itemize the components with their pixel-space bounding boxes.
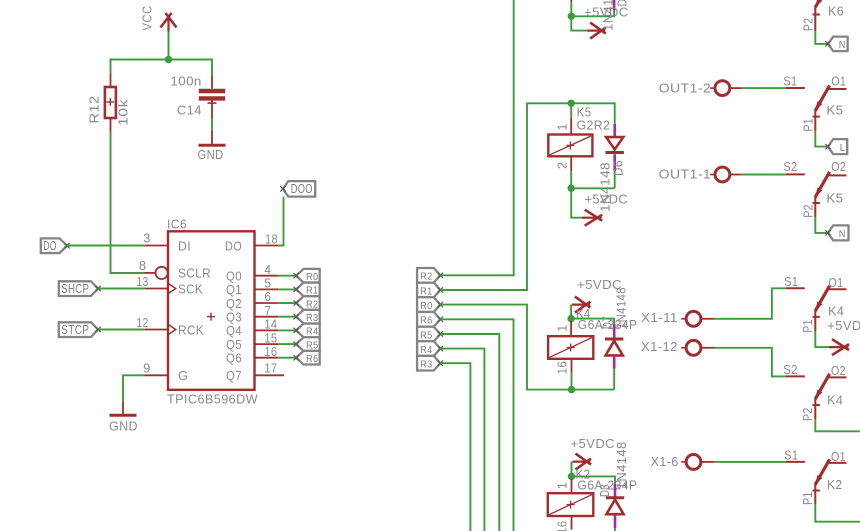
wire R12 to SCLR	[111, 132, 145, 274]
pin 12 RCK	[144, 329, 168, 331]
ground GND (IC6)	[122, 402, 124, 416]
svg-text:S1: S1	[783, 74, 797, 89]
svg-text:9: 9	[143, 360, 151, 375]
svg-text:17: 17	[264, 361, 277, 376]
wire junction to R12 and C14	[111, 60, 213, 76]
svg-text:13: 13	[137, 274, 149, 289]
pin 16 Q6	[255, 357, 279, 359]
wire K2 top to diode D8	[572, 476, 616, 483]
node junction K5 top	[568, 100, 575, 107]
svg-text:N: N	[839, 228, 846, 240]
supply +5VDC (K4 P1)	[815, 331, 829, 347]
wire SHCP to SCK	[98, 288, 144, 290]
wire P1 to L	[815, 131, 828, 147]
wire +5VDC to K4 junction	[570, 305, 572, 319]
svg-text:R3: R3	[306, 312, 319, 324]
node junction K2 top	[568, 473, 575, 480]
relay contact K5 S1/O1/P1	[786, 87, 805, 89]
supply +5VDC (top)	[571, 16, 587, 30]
svg-text:RCK: RCK	[178, 322, 204, 337]
node tag DOO	[283, 181, 315, 197]
relay K5 coil	[570, 103, 572, 118]
svg-text:8: 8	[139, 258, 147, 273]
svg-text:K5: K5	[826, 103, 843, 118]
svg-text:K4: K4	[828, 304, 844, 319]
wire R2 to top edge	[440, 0, 513, 275]
node tags R0-R6 column right of IC6	[296, 269, 320, 283]
pin 17 Q7	[255, 374, 285, 376]
svg-text:1: 1	[555, 123, 570, 131]
pin 7 Q3	[255, 316, 279, 318]
svg-text:D7: D7	[600, 316, 615, 329]
svg-text:16: 16	[555, 361, 570, 375]
svg-text:P2: P2	[801, 18, 816, 32]
svg-text:S2: S2	[783, 362, 798, 377]
relay contact K6 P2 (cut off)	[815, 0, 824, 8]
svg-text:R5: R5	[420, 329, 433, 341]
svg-text:D8: D8	[597, 484, 612, 497]
wire K4 top to diode D7	[571, 319, 614, 324]
pad OUT1-2	[715, 81, 730, 96]
pad OUT1-1	[715, 167, 730, 182]
wire X1-12 to K4 S2	[701, 347, 715, 349]
svg-text:TPIC6B596DW: TPIC6B596DW	[167, 392, 258, 407]
wire K5 top to diode D6	[571, 103, 615, 124]
svg-text:3: 3	[143, 231, 151, 246]
svg-text:S1: S1	[784, 448, 798, 463]
pin 15 Q5	[255, 343, 279, 345]
ground GND (C14)	[211, 131, 213, 145]
node tag N (K5)	[828, 225, 849, 240]
pin 6 Q2	[255, 302, 279, 304]
svg-text:D5: D5	[614, 0, 629, 7]
svg-text:DO: DO	[225, 238, 242, 253]
svg-text:16: 16	[264, 344, 277, 359]
supply +5VDC (K4)	[572, 304, 590, 306]
relay K2 coil	[571, 479, 573, 493]
svg-text:GND: GND	[198, 147, 224, 162]
svg-text:DO: DO	[43, 239, 57, 253]
svg-text:1N4148: 1N4148	[613, 287, 628, 329]
svg-text:X1-6: X1-6	[651, 454, 679, 469]
node junction K4 bottom	[568, 386, 575, 393]
wire C14 to GND	[211, 118, 213, 131]
wire DO to pin3	[67, 245, 144, 247]
svg-text:Q7: Q7	[226, 368, 242, 383]
wire R6 to bottom edge	[440, 319, 513, 531]
svg-text:S2: S2	[783, 159, 797, 174]
svg-text:R6: R6	[420, 315, 433, 327]
svg-text:OUT1-2: OUT1-2	[659, 80, 712, 95]
svg-text:X1-12: X1-12	[641, 339, 678, 354]
op-amp IC6 TPIC6B596DW box	[168, 231, 255, 389]
wire junction to diode D5	[571, 11, 614, 17]
svg-text:16: 16	[555, 521, 570, 531]
wire R1 to K5 coil	[440, 103, 571, 290]
svg-text:K2: K2	[827, 477, 843, 492]
wire VCC to junction	[168, 32, 170, 60]
svg-text:L: L	[840, 142, 846, 154]
svg-text:G: G	[178, 368, 189, 383]
wire R4 to bottom edge	[440, 349, 484, 531]
node tag STCP	[59, 322, 98, 337]
svg-text:N: N	[839, 39, 846, 51]
svg-text:DI: DI	[178, 238, 191, 253]
pin 8 SCLR	[144, 272, 155, 274]
svg-text:12: 12	[137, 315, 149, 330]
svg-text:X1-11: X1-11	[641, 310, 678, 325]
svg-text:S1: S1	[784, 274, 798, 289]
svg-text:P1: P1	[801, 118, 816, 132]
svg-text:STCP: STCP	[61, 323, 89, 337]
node junction K4 top	[567, 315, 574, 322]
svg-text:C14: C14	[177, 103, 202, 118]
capacitor C14	[211, 76, 213, 89]
node tags middle column R2 R1 R0 R6 R5 R4 R3	[417, 268, 440, 283]
svg-text:1: 1	[555, 482, 570, 490]
wire STCP to RCK	[98, 329, 144, 331]
wire P1 to right edge	[815, 505, 860, 522]
wire OUT1-2 to S1	[731, 87, 742, 89]
wire P2 to right edge	[815, 419, 860, 431]
pin 5 Q1	[255, 288, 279, 290]
svg-text:R4: R4	[420, 344, 433, 356]
svg-text:R5: R5	[306, 339, 319, 351]
node tag SHCP	[59, 281, 98, 296]
svg-text:O2: O2	[831, 159, 846, 174]
svg-text:D6: D6	[611, 160, 626, 176]
relay contact K4 S1/O1/P1	[786, 287, 805, 289]
svg-text:R1: R1	[306, 285, 319, 297]
svg-text:+5VDC: +5VDC	[571, 436, 616, 451]
wire +5VDC to K2 junction	[571, 462, 573, 477]
wire G to GND	[123, 375, 144, 401]
svg-text:R0: R0	[306, 271, 319, 283]
svg-text:R2: R2	[306, 298, 319, 310]
svg-text:P1: P1	[800, 492, 815, 506]
svg-text:P2: P2	[801, 204, 816, 218]
pad X1-11	[686, 311, 701, 326]
node tag DO	[41, 238, 67, 253]
svg-text:O1: O1	[828, 275, 843, 290]
svg-text:VCC: VCC	[140, 6, 155, 31]
svg-text:SCK: SCK	[178, 281, 203, 296]
supply +5VDC (K2)	[573, 461, 591, 463]
relay contact K2 S1/O1/P1	[786, 461, 805, 463]
svg-text:K6: K6	[828, 4, 844, 19]
svg-text:P1: P1	[800, 319, 815, 333]
svg-text:+5VDC: +5VDC	[585, 192, 629, 207]
svg-text:SHCP: SHCP	[61, 282, 89, 296]
svg-text:IC6: IC6	[167, 217, 187, 232]
svg-text:K5: K5	[826, 191, 843, 206]
svg-text:R4: R4	[306, 326, 319, 338]
wire R0 to K4 coil	[440, 305, 571, 390]
svg-text:DOO: DOO	[291, 182, 313, 196]
relay K6 coil bottom (cut off at top)	[570, 0, 572, 2]
pin 9 G	[144, 374, 168, 376]
wire X1-6 to K2 S1	[701, 461, 714, 463]
svg-text:1N4148: 1N4148	[614, 441, 629, 489]
svg-text:R0: R0	[420, 300, 433, 312]
svg-text:R12: R12	[87, 96, 102, 124]
pin 13 SCK	[144, 288, 168, 290]
relay K4 coil	[570, 321, 572, 336]
svg-text:1: 1	[555, 324, 570, 332]
svg-text:10k: 10k	[116, 99, 131, 126]
node tag L	[828, 139, 847, 154]
supply VCC	[167, 16, 169, 32]
pin 18 DO	[255, 245, 279, 247]
svg-text:2: 2	[555, 161, 570, 169]
svg-text:Q6: Q6	[226, 351, 242, 366]
pin 14 Q4	[255, 329, 279, 331]
svg-text:K4: K4	[827, 392, 843, 407]
svg-text:O1: O1	[831, 449, 846, 464]
supply +5VDC (K5)	[571, 188, 582, 217]
relay contact K5 S2/O2/P2	[786, 173, 805, 175]
svg-text:+5VDC: +5VDC	[827, 318, 860, 333]
svg-text:SCLR: SCLR	[178, 266, 211, 281]
node junction K6 bottom	[568, 13, 575, 20]
wire X1-11 to K4 S1	[701, 318, 715, 320]
wire R3 to bottom edge	[440, 363, 470, 531]
wire R5 to bottom edge	[440, 334, 499, 531]
node junction K5 bottom	[568, 185, 575, 192]
diode D8 1N4148	[614, 484, 617, 498]
svg-text:OUT1-1: OUT1-1	[659, 167, 712, 182]
svg-text:R3: R3	[420, 359, 433, 371]
svg-text:R1: R1	[420, 285, 433, 297]
pad X1-6	[686, 455, 701, 470]
svg-text:R6: R6	[306, 353, 319, 365]
resistor R12	[110, 74, 112, 87]
wire P2 to N	[815, 217, 828, 233]
relay contact K4 S2/O2/P2	[786, 375, 805, 377]
diode D6 1N4148	[613, 124, 616, 137]
svg-text:O1: O1	[831, 74, 846, 89]
svg-text:1N4148: 1N4148	[601, 0, 616, 31]
svg-text:GND: GND	[109, 419, 138, 434]
svg-text:P2: P2	[800, 408, 815, 422]
wire DO pin18 to DOO	[278, 197, 284, 246]
svg-text:18: 18	[265, 232, 278, 247]
svg-text:O2: O2	[831, 363, 846, 378]
svg-text:G2R2: G2R2	[577, 118, 611, 133]
node tag N (K6)	[828, 37, 848, 52]
pin 3 DI	[144, 245, 168, 247]
svg-text:100n: 100n	[170, 73, 201, 88]
svg-text:R2: R2	[420, 271, 433, 283]
pad X1-12	[686, 340, 701, 355]
pin 4 Q0	[255, 275, 279, 277]
node VCC junction	[165, 56, 172, 63]
diode D7 1N4148	[613, 324, 616, 338]
wire OUT1-1 to S2	[731, 174, 742, 176]
